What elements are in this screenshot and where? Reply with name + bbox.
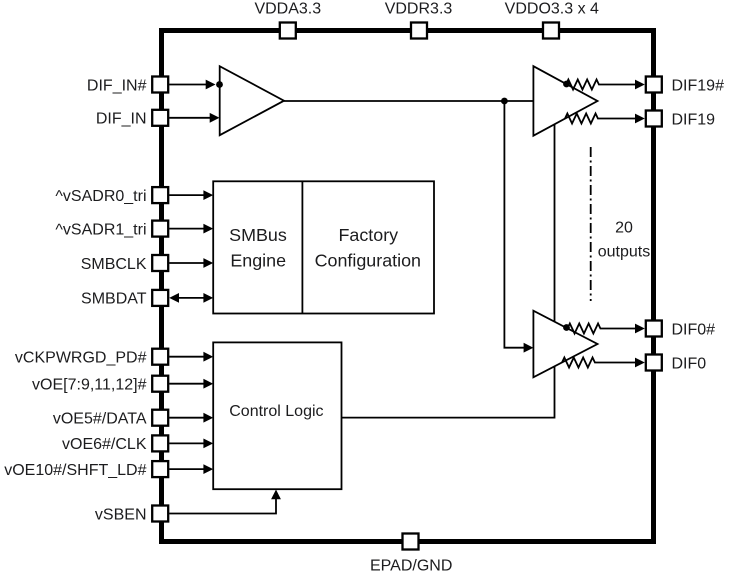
- svg-text:Factory: Factory: [338, 225, 398, 245]
- wire: vertical branch to bottom output buffer: [504, 101, 525, 348]
- block: SMBus Engine / Factory Configuration: [213, 181, 434, 313]
- pin ^vSADR0_tri: [152, 187, 168, 203]
- arrowhead into DIF0 pin: [635, 358, 645, 368]
- pin vOE10#/SHFT_LD#: [152, 461, 168, 477]
- divider between SMBus Engine and Factory Configuration: [301, 181, 303, 313]
- svg-text:^vSADR1_tri: ^vSADR1_tri: [55, 221, 146, 238]
- wire vCKPWRGD_PD# to Control Logic: [169, 356, 205, 358]
- node: inverting input dot on U1: [216, 81, 223, 88]
- node: junction dot on input net: [501, 98, 508, 105]
- wire vOE5#/DATA to Control Logic: [169, 417, 205, 419]
- svg-text:SMBus: SMBus: [229, 225, 287, 245]
- svg-text:vCKPWRGD_PD#: vCKPWRGD_PD#: [15, 350, 147, 367]
- svg-text:20: 20: [615, 220, 633, 237]
- svg-text:DIF19: DIF19: [672, 111, 716, 128]
- pin vSBEN: [152, 506, 168, 522]
- svg-text:^vSADR0_tri: ^vSADR0_tri: [55, 188, 146, 205]
- svg-text:Engine: Engine: [230, 251, 286, 271]
- node: dot on U3 inverting tap: [563, 324, 570, 331]
- node: dot on U2 inverting tap: [563, 81, 570, 88]
- wire vSBEN to Control Logic bottom: [169, 498, 276, 514]
- svg-text:SMBCLK: SMBCLK: [81, 256, 147, 273]
- pin vOE6#/CLK: [152, 435, 168, 451]
- resistor R3 to DIF0#: [568, 324, 636, 334]
- wire ^vSADR1_tri to SMBus Engine: [169, 228, 205, 230]
- pin SMBCLK: [152, 255, 168, 271]
- svg-text:DIF19#: DIF19#: [672, 77, 725, 94]
- wire vOE10#/SHFT_LD# to Control Logic: [169, 468, 205, 470]
- 20-outputs ellipsis dash-dot line: [590, 147, 592, 301]
- arrowhead into DIF19# pin: [635, 80, 645, 90]
- svg-text:DIF_IN: DIF_IN: [96, 111, 147, 128]
- pin DIF_IN: [152, 110, 168, 126]
- wire SMBCLK to SMBus Engine: [169, 262, 205, 264]
- pin DIF19#: [646, 77, 662, 93]
- svg-text:vSBEN: vSBEN: [95, 506, 147, 523]
- arrowhead into DIF0# pin: [635, 324, 645, 334]
- wire SMBDAT to SMBus Engine (bidirectional): [177, 297, 205, 299]
- svg-text:VDDO3.3 x 4: VDDO3.3 x 4: [505, 1, 599, 18]
- pin VDDR3.3: [411, 23, 427, 39]
- wire DIF_IN to U1: [169, 117, 211, 119]
- svg-text:DIF0: DIF0: [672, 355, 707, 372]
- pin vOE[7:9,11,12]#: [152, 376, 168, 392]
- pin EPAD/GND: [403, 534, 419, 550]
- svg-text:EPAD/GND: EPAD/GND: [370, 558, 452, 574]
- arrowhead into bottom output buffer: [524, 343, 534, 353]
- svg-text:outputs: outputs: [598, 244, 650, 261]
- pin DIF0#: [646, 321, 662, 337]
- svg-text:vOE10#/SHFT_LD#: vOE10#/SHFT_LD#: [4, 462, 146, 479]
- block: Control Logic: [213, 342, 341, 489]
- pin ^vSADR1_tri: [152, 221, 168, 237]
- wire vOE[7:9,11,12]# to Control Logic: [169, 383, 205, 385]
- pin vCKPWRGD_PD#: [152, 349, 168, 365]
- resistor R2 to DIF19: [565, 114, 636, 124]
- pin DIF0: [646, 355, 662, 371]
- op-amp U3 bottom output buffer (DIF0): [533, 311, 597, 378]
- pin DIF_IN#: [152, 77, 168, 93]
- pin SMBDAT: [152, 290, 168, 306]
- pin VDDA3.3: [280, 23, 296, 39]
- wire: Control Logic output to output-buffer enables: [342, 124, 555, 417]
- wire DIF_IN# to U1: [169, 84, 207, 86]
- svg-text:vOE[7:9,11,12]#: vOE[7:9,11,12]#: [32, 377, 147, 394]
- svg-text:DIF0#: DIF0#: [672, 321, 716, 338]
- op-amp U1 input buffer: [220, 66, 284, 135]
- chip boundary box: [162, 31, 654, 542]
- wire vOE6#/CLK to Control Logic: [169, 442, 205, 444]
- pin vOE5#/DATA: [152, 410, 168, 426]
- arrowhead into DIF19 pin: [635, 114, 645, 124]
- wire ^vSADR0_tri to SMBus Engine: [169, 194, 205, 196]
- svg-text:Configuration: Configuration: [315, 251, 421, 271]
- resistor R4 to DIF0: [562, 358, 636, 368]
- svg-text:vOE6#/CLK: vOE6#/CLK: [62, 436, 147, 453]
- resistor R1 to DIF19#: [566, 80, 636, 90]
- op-amp U2 top output buffer (DIF19): [533, 66, 597, 136]
- pin DIF19: [646, 111, 662, 127]
- svg-text:VDDA3.3: VDDA3.3: [254, 1, 321, 18]
- svg-text:DIF_IN#: DIF_IN#: [87, 77, 147, 94]
- svg-text:Control Logic: Control Logic: [229, 403, 323, 420]
- svg-text:SMBDAT: SMBDAT: [81, 291, 147, 308]
- pin VDDO3.3: [543, 23, 559, 39]
- wire: input buffer output to top output buffer: [284, 100, 533, 102]
- svg-text:vOE5#/DATA: vOE5#/DATA: [53, 411, 147, 428]
- svg-text:VDDR3.3: VDDR3.3: [385, 1, 453, 18]
